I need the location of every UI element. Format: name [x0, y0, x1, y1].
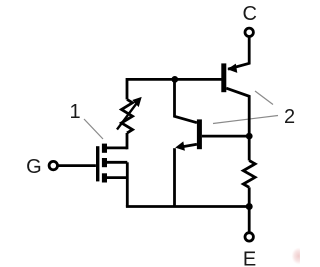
svg-text:E: E: [243, 248, 256, 267]
svg-text:G: G: [26, 156, 42, 178]
svg-text:1: 1: [69, 101, 80, 123]
svg-text:C: C: [242, 3, 256, 25]
svg-text:2: 2: [284, 106, 295, 128]
